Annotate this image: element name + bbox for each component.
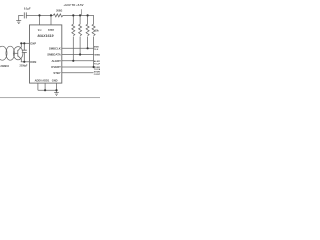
svg-text:TO µP: TO µP xyxy=(94,63,100,65)
transistor Q1 base lead xyxy=(13,52,18,54)
node: rail-R2 junction xyxy=(79,14,81,16)
node: rail-R3 junction xyxy=(87,14,89,16)
svg-text:ADD1: ADD1 xyxy=(42,79,50,83)
wire: VCC drop xyxy=(39,15,41,25)
svg-text:SMBDATA: SMBDATA xyxy=(94,54,100,57)
wire: OVERT line xyxy=(62,66,95,68)
ground symbol at bypass cap xyxy=(16,21,21,24)
page rule at bottom xyxy=(0,96,100,99)
wire: R3 top lead xyxy=(87,15,89,24)
resistor R3 10k body xyxy=(86,24,89,36)
svg-text:ADD0: ADD0 xyxy=(35,79,43,83)
wire: R1 bottom lead to ALERT line xyxy=(72,37,74,61)
wire: STBY drop xyxy=(50,15,52,25)
node: DXP-cap junction xyxy=(23,42,25,44)
wire: GND drop xyxy=(56,83,58,93)
wire: rail from 200ohm to top-right corner xyxy=(63,14,94,16)
wire: ALERT line xyxy=(62,60,94,62)
node: ALERT pullup junction xyxy=(72,60,74,62)
node: rail-R1 junction xyxy=(72,14,74,16)
svg-text:0.1µF: 0.1µF xyxy=(24,6,31,10)
wire: SMBDATA line xyxy=(62,54,94,56)
wire: STBY line xyxy=(62,72,94,74)
wire: R2 bottom lead to SMBDATA line xyxy=(79,37,81,55)
resistor R4 10k body xyxy=(92,24,95,36)
wire: ADD0 drop xyxy=(37,83,39,90)
node: SMBCLK pullup junction xyxy=(87,47,89,49)
svg-text:200Ω: 200Ω xyxy=(56,10,62,13)
capacitor C2 2200pF xyxy=(22,43,27,62)
wire: top rail left segment to bypass cap xyxy=(19,15,24,20)
svg-text:ALERT: ALERT xyxy=(51,59,61,63)
svg-text:STBY: STBY xyxy=(53,71,61,75)
wire: rail from cap to 200ohm resistor xyxy=(26,14,53,16)
resistor R5 200ohm body xyxy=(53,14,63,17)
svg-text:MAX1619: MAX1619 xyxy=(38,34,54,38)
node: rail-VCC junction xyxy=(38,14,40,16)
wire: DXN line xyxy=(21,61,30,63)
transistor Q1 circle xyxy=(13,47,23,60)
junction dots xyxy=(20,14,95,91)
svg-text:2N3904: 2N3904 xyxy=(0,65,9,68)
svg-text:CONT: CONT xyxy=(94,74,100,76)
wire: R3 bottom lead to SMBCLK line xyxy=(87,37,89,49)
resistor R1 10k body xyxy=(72,24,75,36)
node: rail-STBY junction xyxy=(50,14,52,16)
svg-text:CLK: CLK xyxy=(94,49,99,51)
svg-text:STBY: STBY xyxy=(48,30,55,32)
resistor R2 10k body xyxy=(79,24,82,36)
node: DXP-collector junction xyxy=(20,42,22,44)
wire: ADD1 drop xyxy=(44,83,46,90)
wire: R4 top lead xyxy=(93,15,95,24)
transistor Q1 base bar xyxy=(17,50,19,57)
transistor Q1 emitter lead xyxy=(18,56,22,62)
svg-text:2200pF: 2200pF xyxy=(20,65,29,67)
node: ADD1 bottom junction xyxy=(44,89,46,91)
svg-text:SMBCLK: SMBCLK xyxy=(49,46,61,50)
node: OVERT pullup junction xyxy=(93,66,95,68)
wire: bottom tie xyxy=(38,89,57,91)
node: GND bottom junction xyxy=(55,89,57,91)
wire: R1 top lead xyxy=(72,15,74,24)
node: DXN-cap junction xyxy=(23,61,25,63)
svg-text:+3.0V TO +5.5V: +3.0V TO +5.5V xyxy=(63,3,83,7)
wire: DXP line xyxy=(21,42,30,44)
sensor loop ellipse 1 xyxy=(0,46,7,60)
background xyxy=(0,0,100,100)
node: SMBDATA pullup junction xyxy=(79,53,81,55)
capacitor C1 0.1uF plates xyxy=(24,12,26,18)
svg-text:GND: GND xyxy=(52,79,58,83)
wire: R4 bottom lead to OVERT line xyxy=(93,37,95,68)
svg-text:DXP: DXP xyxy=(30,41,36,45)
ground symbol at GND pin xyxy=(54,93,59,96)
wire: R2 top lead xyxy=(79,15,81,24)
wire: supply lead tick xyxy=(81,9,83,15)
svg-text:OVERT: OVERT xyxy=(51,65,61,69)
wire: SMBCLK line xyxy=(62,47,94,49)
svg-text:SMBDATA: SMBDATA xyxy=(47,53,61,57)
sensor loop ellipse 2 xyxy=(6,46,15,60)
svg-text:DXN: DXN xyxy=(30,60,36,64)
IC U1 MAX1619 body xyxy=(30,25,62,83)
transistor Q1 collector lead xyxy=(18,43,22,50)
